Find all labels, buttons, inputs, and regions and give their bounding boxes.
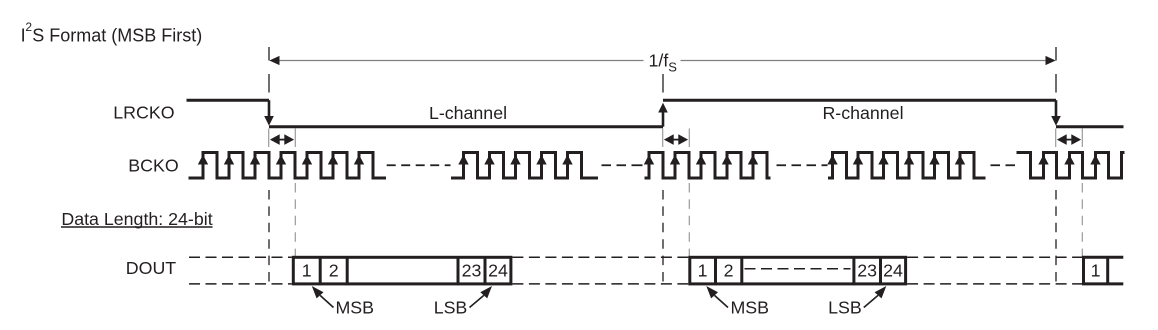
svg-text:2: 2 — [329, 260, 339, 280]
svg-text:LSB: LSB — [434, 298, 468, 318]
svg-text:DOUT: DOUT — [126, 258, 177, 278]
svg-text:1: 1 — [302, 260, 312, 280]
svg-text:23: 23 — [462, 260, 482, 280]
svg-text:S: S — [668, 60, 677, 75]
svg-text:LSB: LSB — [828, 298, 862, 318]
svg-text:1/f: 1/f — [649, 51, 669, 71]
svg-text:R-channel: R-channel — [822, 103, 903, 123]
svg-text:MSB: MSB — [336, 298, 375, 318]
svg-text:L-channel: L-channel — [429, 103, 507, 123]
svg-text:Data Length: 24-bit: Data Length: 24-bit — [61, 209, 212, 229]
svg-text:1: 1 — [1091, 260, 1101, 280]
svg-text:S Format (MSB First): S Format (MSB First) — [32, 26, 202, 46]
svg-text:MSB: MSB — [731, 298, 770, 318]
svg-text:LRCKO: LRCKO — [113, 103, 174, 123]
svg-text:24: 24 — [488, 260, 508, 280]
svg-text:23: 23 — [857, 260, 877, 280]
svg-text:2: 2 — [724, 260, 734, 280]
svg-text:BCKO: BCKO — [128, 156, 178, 176]
svg-text:24: 24 — [883, 260, 903, 280]
svg-text:1: 1 — [698, 260, 708, 280]
